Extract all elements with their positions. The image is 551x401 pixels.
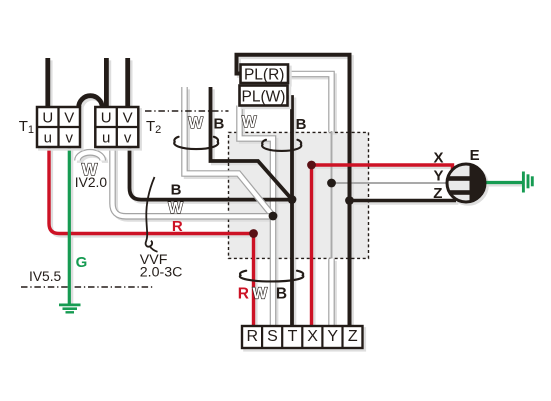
svg-text:G: G	[76, 254, 88, 271]
svg-text:B: B	[171, 182, 182, 199]
svg-text:v: v	[65, 130, 73, 147]
svg-text:B: B	[296, 116, 307, 133]
svg-text:u: u	[102, 130, 110, 147]
svg-text:U: U	[101, 110, 112, 127]
svg-text:R: R	[172, 218, 183, 235]
svg-text:W: W	[168, 200, 183, 217]
svg-text:T: T	[288, 328, 298, 345]
svg-text:v: v	[124, 130, 132, 147]
svg-text:Y: Y	[327, 328, 338, 345]
svg-text:u: u	[44, 130, 52, 147]
svg-text:2.0-3C: 2.0-3C	[140, 265, 183, 281]
svg-text:W: W	[252, 286, 267, 303]
svg-text:W: W	[242, 114, 257, 131]
svg-text:B: B	[213, 115, 224, 132]
svg-text:Z: Z	[348, 328, 358, 345]
svg-text:PL(R): PL(R)	[244, 67, 284, 84]
svg-text:IV5.5: IV5.5	[29, 269, 62, 284]
svg-text:W: W	[188, 115, 203, 132]
svg-text:S: S	[267, 328, 278, 345]
svg-text:B: B	[276, 286, 287, 303]
svg-text:PL(W): PL(W)	[242, 89, 286, 106]
svg-text:R: R	[238, 286, 249, 303]
svg-text:Z: Z	[433, 185, 442, 202]
svg-text:X: X	[433, 149, 443, 166]
svg-text:IV2.0: IV2.0	[75, 175, 108, 190]
svg-text:E: E	[470, 147, 480, 164]
svg-text:X: X	[307, 328, 318, 345]
svg-text:R: R	[247, 328, 259, 345]
svg-text:U: U	[42, 110, 53, 127]
svg-text:V: V	[64, 110, 74, 127]
svg-text:V: V	[123, 110, 133, 127]
svg-text:Y: Y	[433, 167, 443, 184]
